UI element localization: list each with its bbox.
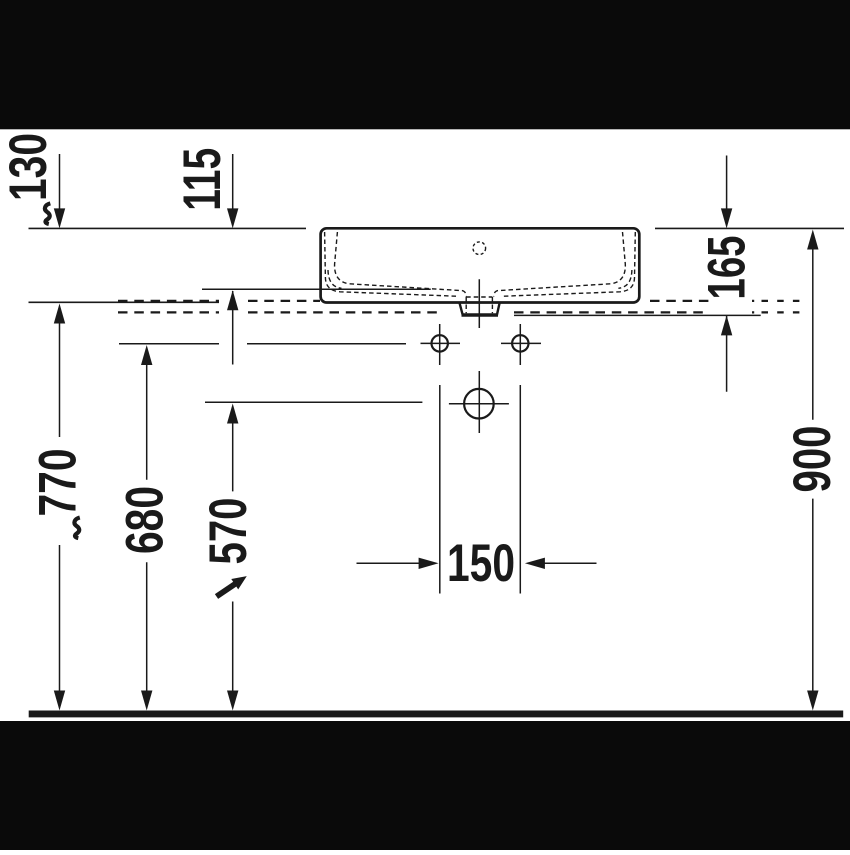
svg-text:570: 570 — [199, 498, 258, 565]
basin inner wall left (dashed profile) — [325, 232, 459, 296]
countertop dashed line row B — [118, 311, 707, 313]
floor line — [29, 710, 844, 717]
dimension ~770 line — [59, 322, 61, 692]
arrowhead 165 up — [721, 315, 732, 335]
dimension 680 line — [146, 363, 148, 692]
extent line left (x150 dim) — [439, 385, 441, 594]
fixing bolt line (680 level) — [119, 343, 406, 345]
svg-text:900: 900 — [783, 426, 842, 493]
interior bottom reference line (115 level) — [202, 288, 431, 290]
dimension 150 line right — [544, 562, 597, 564]
top black band — [0, 0, 850, 129]
dimension 165 line — [726, 156, 728, 392]
center line through drain — [478, 279, 480, 433]
fixing hole right circle — [512, 335, 528, 351]
basin inner wall right (dashed profile) — [501, 232, 635, 296]
dimension 570 line — [232, 422, 234, 692]
svg-text:150: 150 — [447, 534, 515, 593]
arrowhead 570 down — [227, 691, 238, 711]
arrowhead 900 down — [807, 691, 818, 711]
countertop left solid line (~770 level) — [29, 301, 220, 303]
svg-text:165: 165 — [698, 236, 757, 300]
fixing hole left circle — [432, 335, 448, 351]
drain outlet (bold trapezoid) — [459, 303, 499, 315]
svg-text:115: 115 — [173, 148, 232, 211]
arrowhead 680 down — [141, 691, 152, 711]
fixing hole left crosshair — [421, 324, 461, 365]
arrowhead 150 right — [419, 558, 439, 569]
dimension 150 line left — [357, 562, 420, 564]
drain trap line (570 level) — [205, 401, 422, 403]
arrowhead 150 left — [525, 558, 545, 569]
arrowhead 115 down — [227, 208, 238, 228]
arrowhead ~770 down — [54, 691, 65, 711]
bottom black band — [0, 721, 850, 850]
arrowhead 165 down — [721, 208, 732, 228]
label ~770 squiggle — [74, 518, 79, 539]
countertop dashed line row A — [118, 300, 711, 302]
dimension 900 line — [812, 248, 814, 692]
arrowhead 900 up — [807, 230, 818, 250]
arrowhead ~770 up — [54, 304, 65, 324]
svg-text:130: 130 — [0, 133, 58, 201]
tap deck line (top reference line) — [29, 227, 845, 229]
arrowhead 680 up — [141, 345, 152, 365]
drain circle — [464, 389, 494, 419]
faucet hole (dashed circle) — [473, 242, 486, 255]
arrowhead 115 up — [227, 290, 238, 310]
svg-text:680: 680 — [116, 486, 175, 554]
label ~130 squiggle — [45, 203, 50, 224]
washbasin outline — [321, 228, 640, 302]
dimension ~130 line — [59, 154, 61, 210]
dimension 115 line — [232, 154, 234, 365]
arrowhead 570 up — [227, 404, 238, 424]
arrowhead ~130 down — [54, 208, 65, 228]
label 570 adjustable arrow — [213, 571, 250, 602]
fixing hole right crosshair — [501, 324, 541, 365]
extent line right (x150 dim) — [519, 385, 521, 594]
svg-text:770: 770 — [29, 449, 88, 517]
drain circle crosshair — [449, 403, 509, 405]
basin bottom reference line (165 level) — [514, 314, 761, 316]
drain inner dashed box — [466, 297, 492, 313]
